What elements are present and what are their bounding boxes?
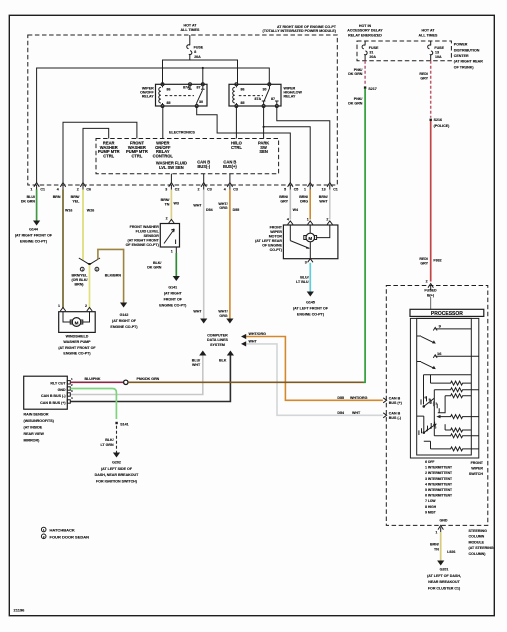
svg-text:10A: 10A bbox=[435, 55, 442, 59]
svg-text:OF TRUNK): OF TRUNK) bbox=[454, 65, 475, 69]
svg-text:WHT: WHT bbox=[193, 310, 202, 314]
svg-text:ORG: ORG bbox=[219, 314, 227, 318]
svg-text:8: 8 bbox=[194, 50, 196, 54]
splice connector on rly out wire bbox=[124, 380, 128, 384]
resistor R3 bbox=[445, 394, 471, 398]
label relay K1 bbox=[140, 86, 154, 98]
svg-text:86: 86 bbox=[167, 88, 171, 92]
relay K2 WIPER HIGH/LOW RELAY bbox=[229, 83, 281, 108]
ground G141 bbox=[159, 285, 187, 307]
svg-text:MOTOR: MOTOR bbox=[269, 234, 283, 238]
wire BRN/GRY W4 TIPM to wiper motor pin 4 bbox=[279, 190, 298, 220]
wire WHT/ORG D55 to wiper switch CAN plus bbox=[241, 332, 383, 401]
svg-text:5 INTERMITTENT: 5 INTERMITTENT bbox=[425, 488, 452, 492]
svg-text:L926: L926 bbox=[447, 550, 455, 554]
wiper switch inner box bbox=[417, 318, 472, 455]
svg-text:2 INTERMITTENT: 2 INTERMITTENT bbox=[425, 471, 452, 475]
svg-text:DISTRIBUTION: DISTRIBUTION bbox=[454, 48, 480, 52]
wire PNK/DK GRN dashed from fuse F2 bbox=[348, 61, 365, 86]
svg-text:CONTROL: CONTROL bbox=[153, 154, 174, 159]
svg-text:FUSE: FUSE bbox=[434, 46, 444, 50]
TIPM bottom connector pins (half-arrow symbols) bbox=[34, 183, 333, 190]
wire BRN/TN L926 to ground G201 bbox=[430, 532, 455, 566]
svg-text:C2: C2 bbox=[175, 188, 180, 192]
splice S217 bbox=[364, 86, 377, 91]
svg-text:BLK/: BLK/ bbox=[153, 261, 161, 265]
wiper switch outer box bbox=[410, 318, 478, 458]
steering column module dashed box bbox=[386, 286, 488, 526]
svg-text:C3: C3 bbox=[233, 188, 238, 192]
wire RED/GRY dashed from fuse F3 bbox=[419, 61, 430, 118]
wire RED/GRY F932 to wiper switch fused B+ bbox=[419, 121, 441, 282]
wire rail to resistor R1 bbox=[430, 375, 432, 383]
svg-text:W3: W3 bbox=[174, 202, 179, 206]
junction at K1-87 on line B bbox=[202, 67, 204, 69]
svg-text:PNK/DK GRN: PNK/DK GRN bbox=[137, 377, 160, 381]
wire bus line B (B+ feed to pin1/C1, K1-87, K2-30) bbox=[37, 68, 270, 183]
svg-text:ALL TIMES: ALL TIMES bbox=[181, 28, 201, 32]
svg-text:BRN/: BRN/ bbox=[319, 195, 328, 199]
wire WHT D54 CAN minus from TIPM bbox=[193, 190, 212, 324]
svg-text:BLU/: BLU/ bbox=[192, 358, 200, 362]
svg-text:ORG: ORG bbox=[219, 206, 227, 210]
svg-text:(AT LEFT OF DASH,: (AT LEFT OF DASH, bbox=[427, 574, 461, 578]
svg-text:G141: G141 bbox=[168, 285, 177, 289]
svg-text:3: 3 bbox=[165, 188, 167, 192]
svg-text:G142: G142 bbox=[120, 313, 129, 317]
svg-text:13: 13 bbox=[322, 188, 326, 192]
svg-text:GRY: GRY bbox=[420, 76, 428, 80]
wire CAN B minus inside TIPM bbox=[203, 174, 205, 183]
svg-text:SEN: SEN bbox=[259, 149, 267, 154]
svg-text:S216: S216 bbox=[434, 118, 442, 122]
wire BLU/PNK rain sensor rly out bbox=[70, 377, 123, 382]
svg-text:1: 1 bbox=[171, 249, 173, 253]
svg-text:PNK/: PNK/ bbox=[354, 97, 363, 101]
svg-text:SWITCH: SWITCH bbox=[469, 472, 484, 476]
svg-text:WHT/: WHT/ bbox=[218, 202, 227, 206]
fuse F3 (PDC fuse 13 10A) bbox=[428, 41, 445, 61]
svg-text:WIPER: WIPER bbox=[270, 230, 282, 234]
svg-text:(AT LEFT FRONT OF: (AT LEFT FRONT OF bbox=[293, 306, 329, 310]
svg-text:(POLICE): (POLICE) bbox=[434, 124, 451, 128]
svg-text:BLU/: BLU/ bbox=[300, 276, 308, 280]
svg-text:RLY CUT: RLY CUT bbox=[50, 382, 66, 386]
wire BRN/TN to washer fluid level sensor bbox=[161, 190, 179, 220]
svg-text:S217: S217 bbox=[368, 87, 376, 91]
svg-text:SYSTEM: SYSTEM bbox=[210, 343, 225, 347]
svg-text:(AT LEFT REAR: (AT LEFT REAR bbox=[255, 239, 282, 243]
svg-text:G201: G201 bbox=[440, 568, 449, 572]
svg-text:CENTER: CENTER bbox=[454, 54, 469, 58]
svg-text:WIPER: WIPER bbox=[471, 467, 483, 471]
svg-text:POWER: POWER bbox=[454, 43, 468, 47]
ground G201 bbox=[427, 568, 461, 591]
label rain sensor bbox=[24, 412, 55, 442]
svg-text:D54: D54 bbox=[337, 411, 344, 415]
svg-text:HATCHBACK: HATCHBACK bbox=[50, 528, 75, 533]
svg-text:CTRL: CTRL bbox=[131, 154, 142, 159]
svg-text:G145: G145 bbox=[306, 300, 315, 304]
wire fused B+ to processor bbox=[430, 298, 432, 310]
svg-text:B(+): B(+) bbox=[427, 293, 435, 297]
splice S216 police bbox=[430, 118, 451, 128]
svg-text:ORG: ORG bbox=[300, 200, 308, 204]
svg-text:GND: GND bbox=[440, 519, 448, 523]
svg-text:GRY: GRY bbox=[420, 261, 428, 265]
svg-text:W16: W16 bbox=[65, 208, 72, 212]
svg-text:F932: F932 bbox=[433, 258, 441, 262]
label HOT IN ACCESSORY DELAY RELAY ENERGIZED bbox=[347, 24, 383, 38]
svg-text:(AT RIGHT REAR: (AT RIGHT REAR bbox=[454, 60, 483, 64]
wire BLK/LT GRN dashed to ground G202 bbox=[100, 426, 120, 458]
svg-text:LT BLU: LT BLU bbox=[296, 280, 309, 284]
wire BLU/WHT rain sensor CAN minus riser bbox=[70, 351, 206, 395]
svg-text:2: 2 bbox=[426, 280, 428, 284]
electronics pin labels bbox=[98, 140, 269, 170]
svg-text:FUSE: FUSE bbox=[369, 46, 379, 50]
svg-text:BLK/: BLK/ bbox=[105, 438, 113, 442]
svg-text:87: 87 bbox=[271, 97, 275, 101]
svg-text:WHT/ORG: WHT/ORG bbox=[249, 332, 267, 336]
svg-text:WHT: WHT bbox=[249, 339, 258, 343]
svg-text:D55: D55 bbox=[233, 208, 240, 212]
svg-text:CAN B: CAN B bbox=[389, 396, 401, 400]
fuse F2 (PDC fuse 31 20A) bbox=[362, 41, 379, 61]
node COMPUTER DATA LINES SYSTEM bbox=[207, 334, 228, 347]
svg-text:S141: S141 bbox=[120, 423, 128, 427]
svg-text:ENGINE CO-PT): ENGINE CO-PT) bbox=[297, 312, 325, 316]
svg-text:WHT: WHT bbox=[192, 363, 201, 367]
svg-text:FUSE: FUSE bbox=[194, 46, 204, 50]
junction K2-87A branch bbox=[263, 126, 265, 128]
svg-text:COMPUTER: COMPUTER bbox=[207, 334, 228, 338]
svg-text:BUS (-): BUS (-) bbox=[389, 416, 402, 420]
svg-text:4: 4 bbox=[287, 217, 289, 221]
svg-text:LVL SW SEN: LVL SW SEN bbox=[159, 165, 184, 170]
label front wiper switch bbox=[469, 461, 484, 476]
svg-text:8 HIGH: 8 HIGH bbox=[425, 505, 437, 509]
svg-text:COLUMN: COLUMN bbox=[469, 535, 485, 539]
svg-text:(AT INSIDE: (AT INSIDE bbox=[24, 425, 43, 429]
svg-text:C1: C1 bbox=[333, 188, 338, 192]
svg-text:86: 86 bbox=[241, 88, 245, 92]
svg-text:ENGINE CO-PT): ENGINE CO-PT) bbox=[20, 240, 48, 244]
svg-text:16: 16 bbox=[437, 351, 442, 356]
svg-text:BLU/: BLU/ bbox=[27, 195, 35, 199]
svg-text:C6: C6 bbox=[86, 188, 91, 192]
wire R7 feed bbox=[424, 441, 431, 449]
svg-text:30: 30 bbox=[263, 88, 267, 92]
switch line pin 16 bbox=[433, 351, 479, 358]
wire WHT/ORG D55 CAN plus from TIPM bbox=[218, 190, 239, 324]
svg-text:GND: GND bbox=[58, 388, 66, 392]
svg-text:WASHER PUMP: WASHER PUMP bbox=[63, 340, 91, 344]
wire BLK rain sensor CAN plus riser bbox=[70, 351, 234, 402]
svg-text:2: 2 bbox=[326, 217, 328, 221]
lower wafer contacts bbox=[419, 422, 437, 435]
svg-text:BRN): BRN) bbox=[75, 282, 85, 286]
svg-text:DK GRN: DK GRN bbox=[21, 200, 36, 204]
svg-text:1: 1 bbox=[307, 217, 309, 221]
svg-text:MODULE: MODULE bbox=[469, 540, 485, 544]
svg-text:RAIN SENSOR: RAIN SENSOR bbox=[24, 412, 49, 416]
svg-text:CAN B: CAN B bbox=[389, 411, 401, 415]
wire BLK/DK GRN sensor to ground G141 bbox=[147, 253, 180, 281]
svg-text:BUS(+): BUS(+) bbox=[223, 164, 237, 169]
svg-text:FRONT: FRONT bbox=[471, 461, 484, 465]
svg-text:YEL: YEL bbox=[72, 200, 80, 204]
svg-text:WHT/: WHT/ bbox=[218, 310, 227, 314]
resistor R5 bbox=[445, 428, 471, 432]
svg-text:1: 1 bbox=[30, 188, 32, 192]
svg-text:RELAY: RELAY bbox=[284, 94, 296, 98]
wire PNK/DK GRN rain sensor to splice S217 bbox=[128, 377, 364, 382]
svg-text:DASH, NEAR BREAKOUT: DASH, NEAR BREAKOUT bbox=[95, 473, 140, 477]
wire BRN W16 to washer pump pin 1 bbox=[53, 190, 73, 309]
svg-text:31: 31 bbox=[369, 50, 373, 54]
ground G145 bbox=[293, 300, 329, 316]
label front washer fluid level sensor bbox=[126, 225, 160, 247]
svg-text:OF ENGINE: OF ENGINE bbox=[262, 243, 282, 247]
svg-text:FRONT OF: FRONT OF bbox=[164, 297, 183, 301]
svg-text:BRN/: BRN/ bbox=[279, 195, 288, 199]
ground G202 bbox=[95, 460, 140, 483]
wire R3 to contact row bbox=[438, 396, 445, 413]
svg-text:85: 85 bbox=[167, 101, 171, 105]
resistor ladder top rail bbox=[424, 374, 472, 376]
label steering column module bbox=[469, 529, 494, 556]
svg-text:6 OFF: 6 OFF bbox=[425, 460, 434, 464]
svg-text:7 LOW: 7 LOW bbox=[425, 499, 436, 503]
wire K2-87 to TIPM pin 3/C1 bbox=[277, 106, 330, 183]
svg-text:WHT/ORG: WHT/ORG bbox=[350, 396, 368, 400]
label relay K2 bbox=[284, 86, 303, 98]
wire bus line A (fused B+ to relay coils) bbox=[163, 60, 238, 84]
TIPM pin number labels bbox=[30, 188, 337, 192]
svg-text:CAN B BUS (+): CAN B BUS (+) bbox=[40, 401, 66, 405]
wire BLK/LT GRN rain sensor gnd to splice S141 bbox=[70, 389, 128, 427]
svg-text:ALL TIMES: ALL TIMES bbox=[419, 33, 439, 37]
svg-text:WHT: WHT bbox=[319, 200, 328, 204]
svg-text:(AT STEERING: (AT STEERING bbox=[469, 546, 494, 550]
svg-text:CTRL: CTRL bbox=[231, 145, 242, 150]
svg-text:DATA LINES: DATA LINES bbox=[207, 338, 228, 342]
svg-text:C3: C3 bbox=[207, 188, 212, 192]
svg-text:FOR IGNITION SWITCH): FOR IGNITION SWITCH) bbox=[96, 480, 138, 484]
wire rail to upper wafer pivot bbox=[423, 375, 425, 405]
svg-text:DK GRN: DK GRN bbox=[348, 72, 363, 76]
switch arm lower bbox=[417, 362, 436, 370]
svg-text:1: 1 bbox=[58, 304, 60, 308]
svg-text:WINDSHIELD: WINDSHIELD bbox=[66, 335, 89, 339]
svg-text:2: 2 bbox=[77, 188, 79, 192]
svg-text:M: M bbox=[308, 236, 312, 241]
wire K2-85 to electronics hi/lo ctrl bbox=[235, 106, 237, 139]
svg-text:BLK/BRN: BLK/BRN bbox=[105, 274, 122, 278]
svg-text:4: 4 bbox=[224, 188, 226, 192]
resistor R2 bbox=[434, 388, 479, 392]
wire BRN/WHT TIPM to wiper motor pin 2 bbox=[319, 190, 330, 220]
label FUSED B+ bbox=[424, 288, 437, 297]
washer pump motor box bbox=[58, 304, 95, 332]
ground G142 bbox=[110, 313, 138, 329]
svg-text:4 INTERMITTENT: 4 INTERMITTENT bbox=[425, 482, 452, 486]
resistor R7 bbox=[431, 447, 479, 451]
svg-text:STEERING: STEERING bbox=[469, 529, 488, 533]
svg-text:PROCESSOR: PROCESSOR bbox=[431, 311, 463, 317]
svg-text:20A: 20A bbox=[369, 55, 376, 59]
svg-text:W26: W26 bbox=[87, 208, 94, 212]
switch line pin 9 bbox=[433, 323, 471, 330]
svg-text:(TOTALLY INTEGRATED POWER MODU: (TOTALLY INTEGRATED POWER MODULE) bbox=[263, 29, 337, 33]
svg-text:D54: D54 bbox=[206, 208, 213, 212]
TIPM module dashed box bbox=[28, 35, 338, 185]
svg-text:FOUR DOOR SEDAN: FOUR DOOR SEDAN bbox=[50, 534, 90, 539]
wire PNK/DK GRN green vertical to rain sensor rly out bbox=[348, 89, 365, 383]
svg-text:BUS(-): BUS(-) bbox=[197, 164, 210, 169]
svg-text:C5: C5 bbox=[294, 188, 299, 192]
svg-text:HOT AT: HOT AT bbox=[422, 29, 436, 33]
svg-text:FUSED: FUSED bbox=[424, 288, 437, 292]
svg-text:W4: W4 bbox=[293, 208, 298, 212]
label HOT AT ALL TIMES (right) bbox=[419, 29, 439, 38]
svg-text:85: 85 bbox=[241, 101, 245, 105]
svg-text:BLU/PNK: BLU/PNK bbox=[85, 377, 101, 381]
wire front washer ctrl to TIPM pin 4 bbox=[63, 122, 137, 182]
svg-text:CTRL: CTRL bbox=[103, 154, 114, 159]
svg-text:BRN: BRN bbox=[53, 195, 61, 199]
svg-text:FLUID LEVEL: FLUID LEVEL bbox=[136, 229, 160, 233]
power distribution center dashed box bbox=[357, 41, 451, 61]
svg-text:LT GRN: LT GRN bbox=[100, 443, 114, 447]
fuse F1 (TIPM fuse 8 20A) bbox=[187, 35, 204, 60]
wire washer fluid lvl sw sen to TIPM pin 3/C2 bbox=[170, 174, 172, 183]
svg-text:SENSOR: SENSOR bbox=[144, 234, 160, 238]
wire CAN B plus inside TIPM bbox=[229, 174, 231, 183]
svg-text:OF ENGINE CO-PT): OF ENGINE CO-PT) bbox=[126, 243, 160, 247]
processor box bbox=[410, 309, 484, 317]
label front wiper motor bbox=[255, 225, 283, 252]
front wiper motor box bbox=[283, 217, 338, 264]
option split symbol (hatchback / sedan) bbox=[79, 258, 100, 272]
svg-text:RED/: RED/ bbox=[419, 72, 428, 76]
svg-text:1: 1 bbox=[435, 530, 437, 534]
svg-text:HOT IN: HOT IN bbox=[359, 24, 372, 28]
pin GND out of switch module bbox=[435, 525, 443, 534]
svg-text:BRN/: BRN/ bbox=[161, 198, 170, 202]
electronics dashed box bbox=[96, 139, 279, 174]
svg-text:RED/: RED/ bbox=[419, 257, 428, 261]
wire K1-85 to electronics on/off relay control bbox=[162, 106, 164, 139]
svg-text:4: 4 bbox=[57, 188, 59, 192]
svg-text:ACCESSORY DELAY: ACCESSORY DELAY bbox=[347, 29, 383, 33]
wire BRN/YEL lower to washer pump pin 2 bbox=[72, 265, 90, 308]
pin fused B+ into switch bbox=[426, 280, 434, 291]
wire R2 tap chain bbox=[433, 390, 435, 436]
wire BLK/BRN sedan branch to ground G142 bbox=[98, 249, 127, 307]
svg-text:87A: 87A bbox=[183, 86, 190, 90]
svg-text:87A: 87A bbox=[255, 97, 262, 101]
svg-text:3 INTERMITTENT: 3 INTERMITTENT bbox=[425, 477, 452, 481]
svg-text:RELAY: RELAY bbox=[142, 94, 154, 98]
svg-text:2: 2 bbox=[198, 188, 200, 192]
wire WHT D54 to wiper switch CAN minus bbox=[241, 339, 383, 415]
svg-text:WHT: WHT bbox=[193, 204, 202, 208]
svg-text:PNK/: PNK/ bbox=[354, 68, 363, 72]
wire BRN/ORG TIPM to wiper motor pin 1 bbox=[299, 190, 310, 220]
label wiper switch positions bbox=[425, 460, 452, 514]
wire BLU/DK GRN to ground G144 bbox=[21, 190, 40, 226]
svg-text:5: 5 bbox=[284, 188, 286, 192]
svg-text:BRN/: BRN/ bbox=[430, 542, 439, 546]
svg-text:FOR CLUSTER C1): FOR CLUSTER C1) bbox=[428, 587, 461, 591]
relay K1 WIPER ON/OFF RELAY bbox=[156, 83, 208, 108]
svg-text:BRN/: BRN/ bbox=[71, 195, 80, 199]
svg-text:TN: TN bbox=[165, 202, 170, 206]
svg-text:G144: G144 bbox=[29, 228, 38, 232]
svg-text:2: 2 bbox=[166, 216, 168, 220]
svg-text:9 MIST: 9 MIST bbox=[425, 510, 436, 514]
svg-text:ENGINE CO-PT): ENGINE CO-PT) bbox=[110, 325, 138, 329]
svg-text:WHT: WHT bbox=[352, 411, 361, 415]
svg-text:(AT RIGHT FRONT: (AT RIGHT FRONT bbox=[128, 238, 160, 242]
wire BLU/LT BLU motor to ground G145 bbox=[296, 263, 314, 297]
svg-text:REAR VIEW: REAR VIEW bbox=[24, 432, 45, 436]
svg-text:1 INTERMITTENT: 1 INTERMITTENT bbox=[425, 466, 452, 470]
svg-text:13: 13 bbox=[435, 50, 439, 54]
footnote markers bbox=[41, 527, 89, 539]
wire BRN/YEL W26 bbox=[71, 190, 95, 260]
svg-text:6 INTERMITTENT: 6 INTERMITTENT bbox=[425, 494, 452, 498]
svg-text:FRONT WASHER: FRONT WASHER bbox=[130, 225, 160, 229]
svg-text:BRN/YEL: BRN/YEL bbox=[72, 274, 89, 278]
resistor R1 bbox=[431, 381, 472, 385]
svg-text:DK GRN: DK GRN bbox=[348, 102, 363, 106]
svg-text:87: 87 bbox=[197, 86, 201, 90]
svg-text:ELECTRONICS: ELECTRONICS bbox=[169, 130, 195, 134]
svg-text:3: 3 bbox=[305, 261, 307, 265]
resistor R4 with arrow contact bbox=[436, 415, 479, 419]
svg-text:D55: D55 bbox=[337, 396, 344, 400]
svg-text:ENGINE CO-PT): ENGINE CO-PT) bbox=[63, 351, 91, 355]
wire R5 tap bbox=[444, 424, 446, 430]
svg-text:20A: 20A bbox=[194, 55, 201, 59]
svg-text:1: 1 bbox=[304, 188, 306, 192]
svg-text:RELAY ENERGIZED: RELAY ENERGIZED bbox=[348, 33, 382, 37]
ground G144 bbox=[15, 228, 53, 244]
svg-text:(OR BLK/: (OR BLK/ bbox=[72, 278, 88, 282]
svg-text:30: 30 bbox=[199, 100, 203, 104]
svg-text:COLUMN): COLUMN) bbox=[469, 552, 487, 556]
svg-text:BRN/: BRN/ bbox=[299, 195, 308, 199]
svg-text:BUS (+): BUS (+) bbox=[389, 401, 403, 405]
svg-text:CO-PT): CO-PT) bbox=[270, 248, 283, 252]
pin CAN B BUS plus into switch bbox=[383, 396, 402, 405]
svg-text:MIRROR): MIRROR) bbox=[24, 438, 41, 442]
switch arm upper bbox=[417, 336, 436, 344]
svg-text:DK GRN: DK GRN bbox=[147, 265, 162, 269]
wire wafer link bbox=[417, 416, 424, 433]
svg-text:C1: C1 bbox=[40, 188, 45, 192]
svg-text:M: M bbox=[75, 320, 79, 325]
svg-text:(W/SUNROOF/TS): (W/SUNROOF/TS) bbox=[24, 419, 55, 423]
rain sensor box bbox=[24, 376, 73, 409]
svg-text:GRY: GRY bbox=[280, 200, 288, 204]
svg-text:CAN B BUS (-): CAN B BUS (-) bbox=[41, 394, 66, 398]
svg-text:ENGINE CO-PT): ENGINE CO-PT) bbox=[159, 303, 187, 307]
wire K2-87A to park sw sense and TIPM pin 1 bbox=[264, 106, 311, 183]
